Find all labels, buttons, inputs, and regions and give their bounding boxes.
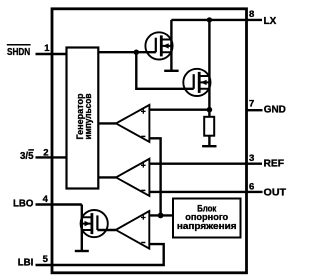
transistor Q1 (N-channel MOSFET) — [145, 32, 172, 59]
svg-text:OUT: OUT — [264, 187, 287, 198]
ground (R1) — [202, 145, 216, 147]
svg-text:LX: LX — [264, 16, 277, 27]
pulse generator block (Генератор импульсов) — [67, 48, 99, 189]
op-amp U3 comparator — [116, 211, 150, 249]
svg-text:напряжения: напряжения — [177, 220, 237, 231]
svg-text:8: 8 — [249, 9, 254, 20]
svg-text:LBO: LBO — [13, 199, 33, 210]
transistor Q3 (LBO open-drain MOSFET, mirrored) — [81, 210, 108, 237]
pin 7 GND lead wire — [247, 109, 263, 111]
svg-text:REF: REF — [264, 159, 285, 170]
svg-text:5: 5 — [43, 254, 49, 265]
SHDN overline — [7, 44, 31, 46]
svg-text:7: 7 — [249, 99, 254, 110]
wire U3 plus input to reference block — [149, 214, 173, 216]
label Генератор импульсов (rotated) — [74, 93, 93, 139]
node gate branch junction — [134, 50, 139, 55]
svg-text:LBI: LBI — [18, 258, 34, 269]
svg-text:GND: GND — [264, 104, 286, 115]
op-amp U1 comparator — [116, 105, 149, 142]
wire generator output to Q1 gate — [98, 51, 156, 53]
wire LX net: Q1 drain rail top to pin 8 — [171, 19, 262, 21]
wire Q1 drain-source rail — [170, 20, 172, 70]
wire Q2 drain-source rail — [208, 20, 210, 110]
node reference junction — [158, 213, 164, 219]
svg-text:2: 2 — [43, 148, 48, 159]
op-amp U2 comparator — [116, 159, 149, 196]
wire comparator U1 plus input to Q2 source node — [149, 108, 209, 110]
IC outline box — [52, 9, 247, 273]
label Блок опорного напряжения — [177, 202, 237, 231]
wire R1 bottom lead — [208, 136, 210, 146]
pin 5 LBI wire to comparator U3 minus input — [36, 244, 164, 265]
svg-text:3/5: 3/5 — [20, 151, 34, 162]
svg-text:импульсов: импульсов — [82, 93, 93, 139]
wire junction down to Q2 gate — [136, 52, 193, 89]
resistor R1 — [204, 117, 214, 136]
reference block (Блок опорного напряжения) — [173, 199, 241, 238]
wire REF net: U2 plus input to pin 3 — [149, 162, 262, 164]
wire node to R1 top — [208, 110, 210, 117]
svg-text:6: 6 — [249, 182, 254, 193]
transistor Q2 (N-channel MOSFET) — [183, 69, 210, 96]
pin 1 SHDN lead wire — [36, 53, 67, 55]
node Q2 source / resistor / comparator junction — [207, 107, 213, 113]
wire U2 output to generator — [98, 176, 116, 178]
ground (Q3 source) — [75, 250, 89, 252]
svg-text:4: 4 — [43, 194, 49, 205]
svg-text:1: 1 — [44, 43, 50, 54]
wire U3 output to Q3 gate — [97, 229, 115, 231]
pin 2 3/5 lead wire — [36, 156, 67, 158]
ground (Q1 source) — [164, 70, 178, 72]
svg-text:SHDN: SHDN — [7, 47, 30, 58]
svg-text:3: 3 — [249, 153, 254, 164]
wire Q3 drain-source rail — [81, 205, 83, 251]
pin 4 LBO lead wire — [36, 203, 82, 205]
wire U1 output to generator — [98, 122, 116, 124]
wire U1 minus input to reference node — [149, 138, 160, 215]
5 overline — [28, 149, 34, 151]
node LX-Q2 junction — [207, 17, 212, 22]
wire OUT net: U2 minus input to pin 6 — [149, 191, 262, 193]
